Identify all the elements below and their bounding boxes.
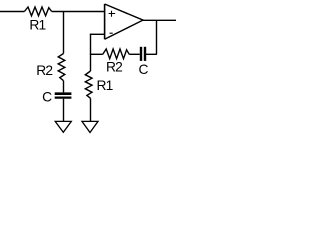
svg-text:R2: R2 — [106, 59, 122, 74]
svg-text:R2: R2 — [36, 63, 52, 78]
svg-text:R1: R1 — [97, 78, 113, 93]
svg-text:C: C — [42, 89, 52, 104]
svg-text:C: C — [139, 62, 149, 77]
svg-text:R1: R1 — [29, 17, 45, 32]
